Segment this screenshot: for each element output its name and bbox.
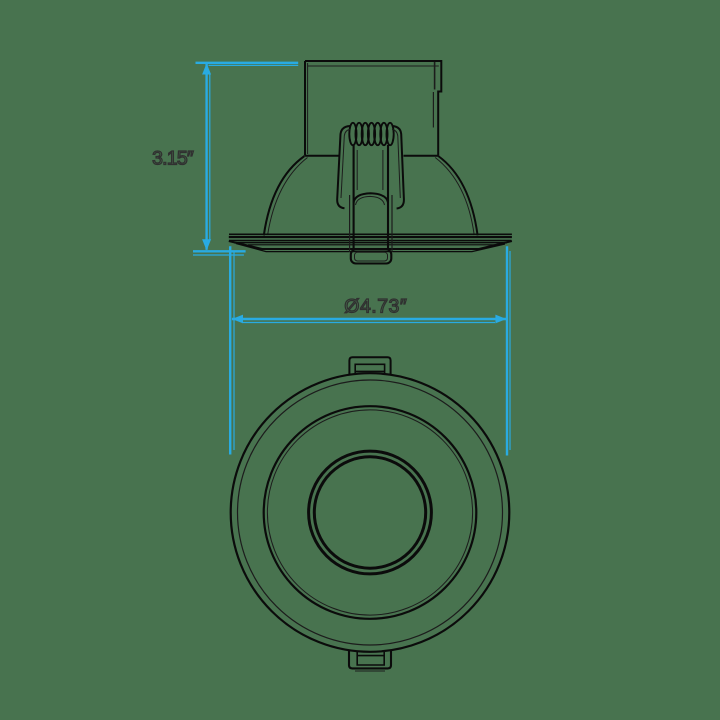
- clip left arm: [337, 126, 350, 208]
- flange underside: [229, 241, 512, 249]
- svg-text:3.15″: 3.15″: [152, 148, 194, 170]
- bottom tab inner: [357, 652, 384, 666]
- clip strap left edge: [353, 145, 355, 250]
- bell trim right echo: [435, 158, 474, 236]
- bottom view middle circle: [264, 406, 477, 619]
- bottom view inner circle inner ring: [314, 457, 425, 568]
- dim dia horizontal echo: [243, 322, 495, 324]
- clip strap right edge: [387, 145, 389, 250]
- bottom view outer circle: [231, 373, 510, 652]
- clip strap right echo: [382, 150, 384, 190]
- dim 3.15 bottom extension line: [193, 250, 246, 252]
- housing can (side view): [305, 61, 441, 156]
- dim dia right arrow: [495, 315, 506, 324]
- clip left arm echo: [341, 130, 350, 199]
- bell trim right edge: [438, 156, 477, 235]
- dim 3.15 vertical line: [205, 64, 207, 250]
- clip strap left outer echo: [349, 195, 351, 252]
- clip arch echo: [356, 196, 385, 205]
- bottom view inner circle outer ring: [309, 451, 432, 574]
- bottom view outer circle echo: [238, 380, 503, 645]
- dim 3.15 up arrow: [202, 63, 211, 74]
- dim dia left extension line: [229, 246, 231, 454]
- flange mid line: [229, 239, 512, 241]
- clip strap right outer echo: [391, 195, 393, 252]
- bell trim left edge: [264, 156, 305, 235]
- flange top echo line: [229, 233, 512, 235]
- housing echo lines: [308, 62, 439, 154]
- bottom view middle circle echo: [267, 410, 472, 615]
- svg-text:Ø4.73″: Ø4.73″: [344, 296, 407, 318]
- clip bottom loop echo: [355, 252, 388, 261]
- flange top line: [229, 236, 512, 238]
- dim 3.15 bottom extension echo: [193, 254, 244, 256]
- dim dia horizontal line: [232, 318, 507, 320]
- clip right arm: [392, 126, 404, 209]
- clip strap left echo: [356, 150, 358, 190]
- top tab: [349, 357, 390, 374]
- dim 3.15 top extension line: [196, 62, 299, 64]
- dim dia left extension echo: [233, 251, 235, 450]
- dim dia right extension echo: [509, 251, 511, 450]
- bottom tab echo: [355, 670, 385, 672]
- dim dia left arrow: [232, 315, 243, 324]
- dim dia right extension line: [506, 246, 508, 455]
- dim 3.15 vertical echo: [209, 74, 211, 240]
- flange mid echo line: [234, 242, 507, 244]
- flange lower thin line: [248, 244, 495, 246]
- dim 3.15 top extension echo: [209, 64, 299, 66]
- top tab inner: [355, 364, 384, 374]
- clip arch: [354, 193, 388, 202]
- clip right arm echo: [392, 130, 400, 199]
- bottom tab: [349, 651, 391, 669]
- coil spring: [349, 123, 393, 145]
- clip bottom loop: [351, 250, 392, 264]
- dim 3.15 down arrow: [202, 239, 211, 250]
- bell trim left echo: [268, 158, 308, 236]
- flange underside echo: [236, 244, 505, 252]
